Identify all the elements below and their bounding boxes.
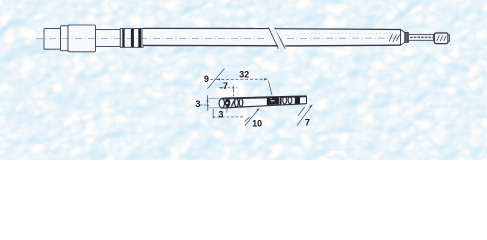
connector box A xyxy=(44,28,61,49)
cable upper dot texture xyxy=(300,32,396,34)
dimension graphics xyxy=(200,69,312,126)
cable break diagonal 1 xyxy=(269,28,279,49)
strain relief band 2 xyxy=(131,29,134,48)
dim 10 leader xyxy=(245,108,259,125)
detail slash xyxy=(231,99,235,106)
connector body C xyxy=(68,25,96,52)
svg-text:7: 7 xyxy=(305,118,310,128)
dim 3 bottom line xyxy=(213,116,244,118)
dim 7 line xyxy=(219,87,237,89)
tip body xyxy=(434,33,448,44)
cable end hatching xyxy=(389,34,404,42)
strain relief band 1 xyxy=(122,29,124,48)
dim 9 leader xyxy=(211,78,217,80)
dimension texts xyxy=(195,69,310,128)
detail probe body xyxy=(222,96,307,108)
cable right section xyxy=(275,29,401,46)
svg-text:3: 3 xyxy=(219,110,224,120)
dim 32 left oblique extension xyxy=(208,69,225,89)
connector sleeve D xyxy=(96,29,121,46)
svg-text:7: 7 xyxy=(223,81,228,91)
background paper xyxy=(0,0,487,160)
detail end band xyxy=(295,97,300,104)
svg-text:3: 3 xyxy=(195,99,200,109)
taper to rod xyxy=(401,30,405,46)
ring collar xyxy=(405,32,409,42)
cable left section xyxy=(143,28,278,46)
detail ring 4 xyxy=(283,97,287,104)
dim 32 line xyxy=(217,78,268,80)
detail ring crimp xyxy=(225,99,230,108)
svg-text:9: 9 xyxy=(204,74,209,84)
connector collar B xyxy=(61,26,69,51)
strain relief band 3 xyxy=(138,29,141,48)
tip nub xyxy=(448,35,450,41)
rod xyxy=(408,34,433,40)
detail dark band xyxy=(267,97,282,105)
dim 3 left vertical xyxy=(207,95,209,111)
dim 32 right oblique extension xyxy=(268,81,272,96)
svg-text:32: 32 xyxy=(239,69,249,79)
svg-text:10: 10 xyxy=(252,118,262,128)
dim 7 right extensions xyxy=(297,105,312,126)
cable break diagonal 2 xyxy=(275,28,285,49)
centerline xyxy=(36,37,265,40)
detail ring 3 xyxy=(239,98,243,106)
detail ring 5 xyxy=(288,97,292,104)
detail tip face ellipse xyxy=(219,99,224,108)
detail ring 2 xyxy=(235,99,239,107)
strain relief E xyxy=(120,29,143,48)
